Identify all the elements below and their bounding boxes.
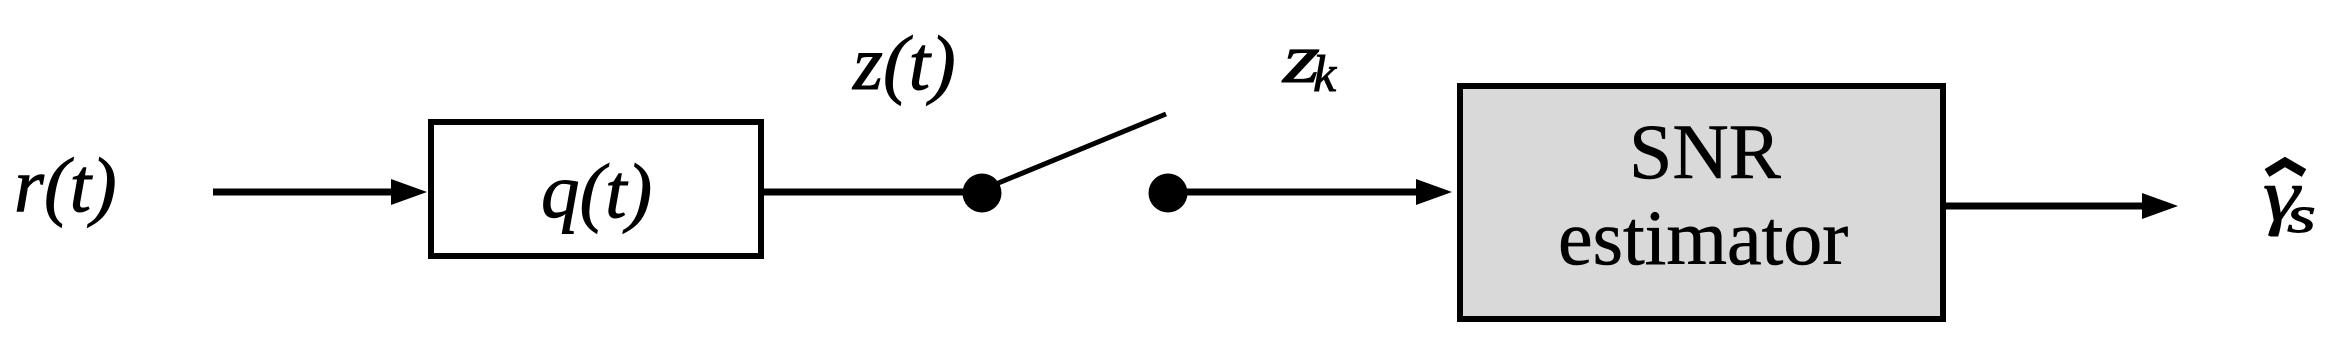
block q(t) filter [431,122,761,256]
svg-text:r(t): r(t) [14,142,117,228]
wire sampler to SNR estimator arrow [1180,179,1452,205]
node r(t) input label [14,142,117,228]
node gamma-hat output label [2263,155,2316,244]
wire SNR estimator output arrow [1946,193,2178,219]
svg-text:z(t): z(t) [852,20,956,106]
svg-text:k: k [1313,46,1337,103]
switch sampler arm [996,114,1166,184]
node sampler output dot [1149,174,1188,213]
node z_k label [1282,21,1337,103]
svg-text:s: s [2287,187,2316,244]
wire q(t) output to sampler node [764,189,975,196]
wire input arrow to q(t) block [213,179,427,205]
node sampler input dot [963,174,1002,213]
block SNR estimator [1460,86,1943,319]
svg-text:estimator: estimator [1558,194,1848,281]
svg-text:SNR: SNR [1629,108,1781,195]
svg-text:q(t): q(t) [541,148,652,234]
node z(t) label [852,20,956,106]
